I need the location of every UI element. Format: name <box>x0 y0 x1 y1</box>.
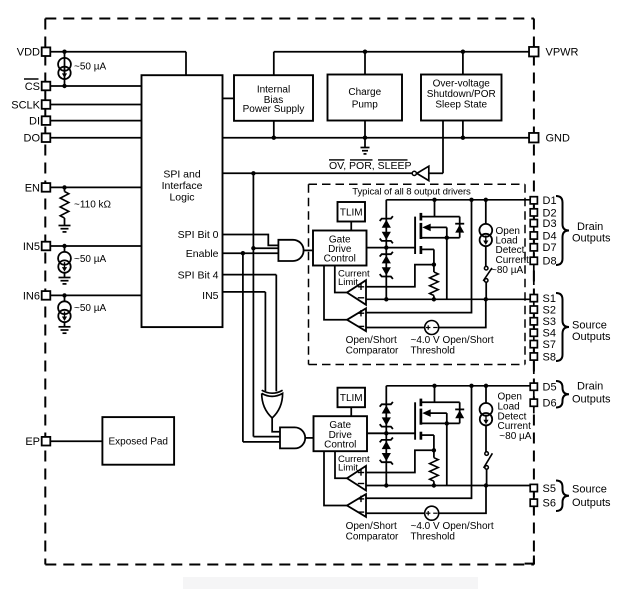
svg-text:D7: D7 <box>543 242 557 254</box>
svg-text:OV, POR, SLEEP: OV, POR, SLEEP <box>329 160 411 172</box>
svg-text:Outputs: Outputs <box>572 497 611 509</box>
svg-text:~4.0 V Open/Short: ~4.0 V Open/Short <box>411 335 494 346</box>
svg-text:Outputs: Outputs <box>572 394 611 406</box>
svg-text:Control: Control <box>324 439 356 450</box>
svg-text:~80 µA: ~80 µA <box>491 265 524 276</box>
svg-text:S3: S3 <box>543 316 556 328</box>
svg-text:S8: S8 <box>543 351 556 363</box>
svg-text:D8: D8 <box>543 256 557 268</box>
svg-text:Threshold: Threshold <box>411 531 455 542</box>
svg-text:Comparator: Comparator <box>346 531 399 542</box>
svg-text:Open/Short: Open/Short <box>346 521 397 532</box>
svg-text:DO: DO <box>24 133 41 145</box>
svg-text:Source: Source <box>572 483 607 495</box>
svg-text:TLIM: TLIM <box>340 393 363 404</box>
svg-text:Interface: Interface <box>162 180 203 192</box>
svg-text:Threshold: Threshold <box>411 346 455 357</box>
svg-text:D4: D4 <box>543 230 557 242</box>
svg-text:D5: D5 <box>543 382 557 394</box>
svg-text:Over-voltage: Over-voltage <box>433 78 491 89</box>
svg-text:TLIM: TLIM <box>340 208 363 219</box>
svg-text:EN: EN <box>25 182 40 194</box>
svg-text:EP: EP <box>25 436 40 448</box>
svg-text:D3: D3 <box>543 218 557 230</box>
svg-text:Open/Short: Open/Short <box>346 335 397 346</box>
svg-text:Shutdown/POR: Shutdown/POR <box>427 89 496 100</box>
svg-text:~50 µA: ~50 µA <box>74 61 107 72</box>
svg-text:GND: GND <box>546 133 571 145</box>
svg-text:Limit: Limit <box>338 277 358 288</box>
svg-text:Pump: Pump <box>352 100 379 111</box>
svg-text:SPI Bit 4: SPI Bit 4 <box>178 270 219 282</box>
svg-text:Typical of all 8 output driver: Typical of all 8 output drivers <box>352 187 471 198</box>
svg-text:VDD: VDD <box>17 47 40 59</box>
svg-text:~50 µA: ~50 µA <box>74 254 107 265</box>
svg-text:Charge: Charge <box>348 87 381 98</box>
svg-text:SPI and: SPI and <box>163 169 201 181</box>
svg-text:DI: DI <box>29 116 40 128</box>
svg-text:D1: D1 <box>543 195 557 207</box>
svg-text:Outputs: Outputs <box>572 232 611 244</box>
svg-text:Control: Control <box>324 254 356 265</box>
svg-text:Exposed Pad: Exposed Pad <box>109 437 169 448</box>
svg-text:Internal: Internal <box>257 84 290 95</box>
svg-text:CS: CS <box>25 81 40 93</box>
svg-text:Drain: Drain <box>577 221 603 233</box>
svg-text:Sleep State: Sleep State <box>435 100 487 111</box>
svg-text:Source: Source <box>572 320 607 332</box>
svg-text:Logic: Logic <box>169 192 194 204</box>
svg-text:S5: S5 <box>543 483 556 495</box>
svg-text:IN5: IN5 <box>202 290 219 302</box>
svg-text:~80 µA: ~80 µA <box>499 431 532 442</box>
svg-text:IN5: IN5 <box>23 241 40 253</box>
svg-text:Comparator: Comparator <box>346 346 399 357</box>
svg-text:Outputs: Outputs <box>572 331 611 343</box>
svg-text:~4.0 V Open/Short: ~4.0 V Open/Short <box>411 521 494 532</box>
svg-text:S6: S6 <box>543 498 556 510</box>
svg-text:Limit: Limit <box>338 463 358 474</box>
svg-text:Enable: Enable <box>186 248 219 260</box>
svg-text:IN6: IN6 <box>23 290 40 302</box>
svg-text:VPWR: VPWR <box>546 47 579 59</box>
svg-text:S7: S7 <box>543 339 556 351</box>
svg-text:SPI Bit 0: SPI Bit 0 <box>178 229 219 241</box>
svg-text:S1: S1 <box>543 293 556 305</box>
svg-text:S2: S2 <box>543 305 556 317</box>
svg-text:S4: S4 <box>543 328 556 340</box>
svg-text:Power Supply: Power Supply <box>243 104 305 115</box>
svg-text:~50 µA: ~50 µA <box>74 303 107 314</box>
svg-text:SCLK: SCLK <box>11 100 40 112</box>
svg-text:~110 kΩ: ~110 kΩ <box>74 200 112 211</box>
svg-text:Drain: Drain <box>577 381 603 393</box>
svg-text:D6: D6 <box>543 398 557 410</box>
